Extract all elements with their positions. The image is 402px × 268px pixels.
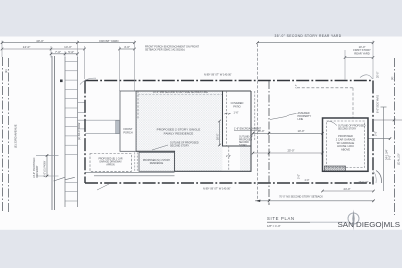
watermark compass circle: [348, 213, 359, 224]
dim line garage to alley: [368, 138, 390, 140]
dashed v below patio: [228, 146, 230, 171]
svg-text:14'-0": 14'-0": [23, 45, 31, 49]
svg-text:3'-0": 3'-0": [375, 131, 378, 136]
svg-text:GARAGE DRIVEWAY: GARAGE DRIVEWAY: [99, 160, 122, 163]
svg-text:STORY: STORY: [239, 145, 247, 147]
sidewalk score joints: [65, 62, 78, 202]
patio v-dim line: [219, 121, 221, 146]
house hatch main: [136, 91, 251, 171]
ext line x51: [50, 46, 52, 58]
second story setback dashed line x255: [257, 44, 259, 201]
ext line x134.5: [134, 41, 136, 92]
svg-text:N 89° 09' 07" W 140.00': N 89° 09' 07" W 140.00': [204, 72, 232, 76]
driveway apron dashed box: [90, 154, 132, 172]
dashed v pair between boxes: [134, 152, 136, 171]
patio lower white: [223, 146, 241, 171]
second story dashed h top: [138, 94, 222, 96]
annex box: [139, 152, 175, 171]
svg-text:SETBACK PER SDMC 142.0510(b): SETBACK PER SDMC 142.0510(b): [145, 49, 185, 52]
svg-text:(E) 84'-0" ROW: (E) 84'-0" ROW: [78, 122, 81, 140]
svg-text:70'-0" NO SECOND STORY SETBACK: 70'-0" NO SECOND STORY SETBACK: [279, 195, 323, 198]
patio arrow marks: [225, 113, 231, 114]
svg-text:SITE PLAN: SITE PLAN: [267, 216, 295, 221]
rear yard dim ticks: [256, 41, 374, 44]
svg-text:ABOVE: ABOVE: [341, 148, 350, 152]
svg-text:10'-0": 10'-0": [257, 129, 264, 133]
svg-text:16'-0": 16'-0": [216, 134, 219, 140]
property line south: [85, 182, 373, 184]
outline note leader: [152, 145, 168, 150]
svg-text:DRIVEWAY: DRIVEWAY: [36, 165, 39, 178]
rear yard dim line: [258, 42, 373, 44]
dim 4'-0" ticks: [118, 48, 135, 51]
svg-text:5'-0": 5'-0": [68, 50, 74, 54]
svg-text:4'-0": 4'-0": [124, 45, 130, 49]
street second line: [8, 58, 10, 213]
dim line property to alley: [373, 119, 402, 121]
svg-text:10'-0" MIN SECOND STORY SIDE S: 10'-0" MIN SECOND STORY SIDE SETBACK LIN…: [153, 91, 208, 94]
garage outer: [323, 118, 369, 171]
svg-text:2'-0": 2'-0": [296, 84, 298, 89]
svg-text:APRON: APRON: [106, 163, 115, 166]
svg-text:4'-0": 4'-0": [305, 179, 310, 182]
svg-text:REAR YARD: REAR YARD: [354, 51, 369, 55]
dim row3 ticks: [50, 53, 79, 56]
adjusted property line: [268, 81, 270, 205]
dim row1 ticks: [1, 41, 136, 44]
first story dim ticks: [344, 56, 374, 59]
walkway to porch: [78, 119, 120, 121]
svg-text:W/ CARRIAGE: W/ CARRIAGE: [337, 141, 355, 145]
dim row2 ticks: [1, 48, 86, 51]
curb-cut ext line upper: [36, 154, 59, 156]
svg-text:1/8" = 1'-0": 1/8" = 1'-0": [267, 224, 281, 228]
svg-text:HOUSE / ADU: HOUSE / ADU: [337, 144, 354, 148]
svg-text:20'-0": 20'-0": [377, 72, 380, 78]
ext line x373: [372, 41, 374, 80]
svg-text:9'-0": 9'-0": [389, 155, 392, 160]
utility lateral b: [78, 112, 86, 114]
svg-text:SAN DIEGO|MLS: SAN DIEGO|MLS: [338, 220, 401, 229]
svg-text:PROPOSED: PROPOSED: [338, 134, 353, 138]
leader arc at west corner: [80, 78, 96, 84]
street centerline (far left): [2, 57, 4, 213]
svg-text:(E): (E): [4, 69, 8, 73]
front porch: [120, 91, 136, 151]
bottom gray band: [0, 230, 402, 268]
ext line x77.5: [77, 41, 79, 59]
svg-text:PATIO: PATIO: [233, 105, 240, 109]
dim row1 line: [2, 42, 135, 44]
svg-text:(E) 33RD AVENUE: (E) 33RD AVENUE: [14, 124, 18, 148]
svg-text:25'-0": 25'-0": [287, 149, 294, 153]
svg-text:8'-0" SIDE YARD: 8'-0" SIDE YARD: [377, 95, 380, 113]
svg-text:24'-0": 24'-0": [343, 187, 350, 191]
dim 70'-0" line: [255, 200, 374, 202]
ext line x345: [344, 50, 346, 80]
curb-cut ext line lower: [36, 175, 59, 177]
rear setback dashed v line: [352, 88, 354, 118]
property line north: [85, 80, 373, 82]
second story dashed v front: [137, 91, 139, 119]
mid dim row2: [253, 152, 323, 154]
svg-text:OUTLINE OF PROPOSED: OUTLINE OF PROPOSED: [338, 126, 366, 128]
svg-text:PROPOSED: PROPOSED: [239, 139, 252, 141]
svg-text:OUTLINE OF: OUTLINE OF: [239, 137, 253, 139]
svg-text:N 89° 09' 07" W 140.00': N 89° 09' 07" W 140.00': [203, 187, 231, 191]
leader at south line: [97, 184, 109, 190]
ext line x119.5: [119, 47, 121, 92]
watermark line: [310, 221, 348, 223]
adjusted note leader: [270, 114, 297, 120]
driveway arc right: [376, 171, 382, 184]
title underline: [267, 221, 310, 223]
svg-text:2 CAR GARAGE: 2 CAR GARAGE: [336, 137, 356, 141]
alley centerline: [394, 58, 396, 215]
small arc b: [374, 171, 377, 183]
porch steps: [116, 121, 120, 134]
patio dashed v a: [226, 91, 228, 146]
svg-text:PORCH: PORCH: [123, 130, 132, 134]
ext line x65: [64, 51, 66, 58]
svg-text:23'-0 1/2": 23'-0 1/2": [359, 181, 369, 184]
dim 4'-0" line: [120, 48, 135, 50]
svg-text:RESIDENCE: RESIDENCE: [150, 163, 164, 165]
garage note leader: [327, 121, 337, 126]
svg-text:LINE: LINE: [298, 118, 304, 121]
first story dim line: [345, 57, 373, 59]
water meter: [60, 80, 63, 83]
svg-text:35'-0" SECOND STORY REAR YARD: 35'-0" SECOND STORY REAR YARD: [275, 34, 342, 38]
svg-text:SECOND: SECOND: [239, 142, 249, 144]
house outline: [136, 91, 251, 171]
svg-text:7'-0": 7'-0": [55, 50, 61, 54]
rear setback dashed h line: [297, 87, 353, 89]
svg-text:14'-0": 14'-0": [64, 45, 72, 49]
utility lateral c: [78, 128, 86, 130]
svg-text:1'-6": 1'-6": [234, 112, 239, 115]
svg-text:(E): (E): [391, 77, 394, 81]
line under boxes b: [94, 175, 175, 177]
covered patio white: [223, 91, 252, 146]
svg-text:(E) ALLEY: (E) ALLEY: [398, 153, 401, 165]
svg-text:FAMILY RESIDENCE: FAMILY RESIDENCE: [164, 131, 194, 135]
garage inner dashed: [327, 121, 365, 168]
svg-text:PROPOSED (E) 1 CAR: PROPOSED (E) 1 CAR: [98, 158, 122, 161]
svg-text:SECOND STORY: SECOND STORY: [170, 144, 189, 147]
property line west: [84, 81, 86, 184]
svg-text:3'-0": 3'-0": [298, 174, 301, 179]
svg-text:10'-0": 10'-0": [297, 129, 304, 133]
property line east: [372, 81, 374, 185]
leader arc at east corner: [360, 75, 373, 79]
garage door hatch: [325, 166, 346, 171]
svg-text:FRONT YARD: FRONT YARD: [99, 39, 119, 43]
svg-text:4'-0" (E) PKWY: 4'-0" (E) PKWY: [44, 160, 47, 177]
mid dim row1: [253, 132, 323, 134]
compass needle: [352, 210, 354, 231]
driveway flare diagonals: [54, 177, 75, 181]
svg-text:PROPOSED (N) 1 STORY: PROPOSED (N) 1 STORY: [143, 160, 171, 162]
svg-text:40'-0": 40'-0": [36, 39, 44, 43]
top gray band: [0, 0, 402, 37]
line under boxes a: [85, 171, 175, 173]
ext line x2: [1, 41, 3, 58]
svg-text:SECOND STORY: SECOND STORY: [338, 128, 357, 130]
curb-cut v dim line: [46, 155, 48, 176]
utility lateral a: [78, 101, 86, 103]
sidewalk right rail: [77, 57, 79, 207]
dim row3 line: [51, 53, 78, 55]
dim 24'-0" line: [323, 190, 374, 192]
dim row2 line: [2, 48, 85, 50]
sidewalk left rail: [64, 57, 66, 207]
curb double line: [51, 56, 53, 210]
second story dashed v right: [254, 91, 256, 140]
right thin v line: [383, 107, 385, 191]
ext line x84.5: [84, 46, 86, 79]
